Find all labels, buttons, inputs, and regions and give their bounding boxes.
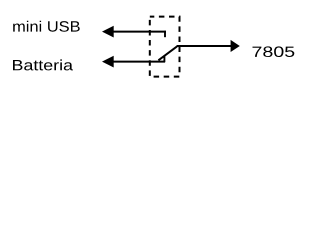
label Batteria — [13, 59, 73, 70]
wire to 7805 with right arrowhead — [177, 40, 240, 52]
switch S1 dashed enclosure — [150, 17, 180, 77]
wire to Batteria with left arrowhead — [102, 56, 165, 68]
switch S1 bottom contact (Batteria side) — [163, 56, 165, 62]
label mini USB — [13, 21, 80, 32]
label 7805 — [253, 46, 295, 57]
switch S1 lever (thrown to Batteria) — [158, 46, 177, 60]
switch S1 top contact (mini USB side) — [164, 31, 166, 37]
wire to mini USB with left arrowhead — [102, 26, 166, 38]
